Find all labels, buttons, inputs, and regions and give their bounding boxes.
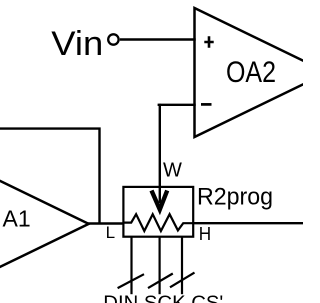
SCK slash [148,274,173,289]
wire vertical down to wiper W [159,104,161,203]
wire A1 output to R2prog terminal L [87,222,124,224]
svg-text:L: L [106,223,115,242]
control line SCK [159,237,161,294]
OA2 pin - symbol [201,103,212,106]
svg-text:A1: A1 [3,205,31,231]
svg-text:DIN SCK CS': DIN SCK CS' [103,292,223,303]
wiper arrow [152,191,168,210]
wire feedback from left edge over to down corner [0,129,100,224]
control line DIN [130,237,132,294]
control line CS' [181,237,183,294]
wire R2prog terminal H to right edge [193,222,304,224]
op-amp A1 [0,159,89,288]
svg-text:R2prog: R2prog [197,183,273,210]
CS' slash [170,273,195,288]
svg-text:Vin: Vin [51,25,103,63]
svg-text:OA2: OA2 [226,56,276,89]
OA2 pin + symbol [204,36,213,47]
resistor R2prog box [123,187,193,237]
svg-text:H: H [199,224,211,244]
terminal Vin [108,34,118,44]
resistor R2prog zigzag [123,214,193,231]
wire OA2 inverting input horizontal segment [158,104,196,106]
wire Vin terminal to OA2 non-inverting input [120,38,196,40]
DIN slash [118,274,144,288]
svg-text:W: W [163,159,182,181]
op-amp OA2 [195,8,320,137]
